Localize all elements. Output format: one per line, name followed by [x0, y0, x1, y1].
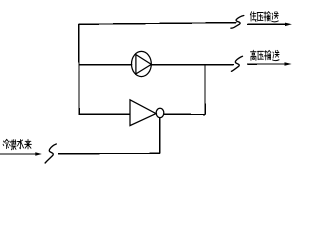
char 高 — [251, 50, 257, 60]
pump P (circle with inscribed triangle) — [132, 51, 152, 76]
wire: middle horizontal from pump to break — [151, 64, 233, 66]
char 水 — [17, 139, 23, 148]
char 输 — [264, 12, 270, 21]
char 低 — [250, 12, 256, 22]
break symbol on condensate line — [45, 144, 56, 163]
break symbol on top line — [231, 16, 244, 29]
char 来 — [25, 139, 32, 149]
char 冷 — [3, 139, 9, 148]
wire: top horizontal (to low-pressure break) — [79, 23, 236, 25]
wire: left vertical riser — [78, 24, 80, 114]
wire: middle horizontal into pump — [79, 64, 132, 66]
char 输 — [264, 50, 270, 59]
ejector U (triangle with bubble) — [130, 100, 164, 126]
label: 低压输送 (low-pressure delivery) — [250, 12, 278, 22]
arrowhead: high-pressure delivery — [285, 62, 292, 66]
label: 高压输送 (high-pressure delivery) — [251, 50, 280, 60]
wire: right vertical (middle line down to ejector outlet) — [204, 64, 206, 114]
char 压 — [258, 51, 264, 59]
char 送 — [272, 12, 279, 22]
wire: top-right arrow line (low-pressure delivery) — [248, 23, 287, 25]
wire: bubble outlet to right vertical — [164, 113, 205, 116]
wire: drop from bubble to condensate line — [159, 118, 161, 154]
wire: bottom loop horizontal into ejector — [79, 113, 130, 115]
wire: middle-right arrow line (high-pressure delivery) — [247, 63, 286, 65]
label: 冷凝水来 (condensate water in) — [3, 139, 31, 149]
wire: condensate inlet line (left of break) — [0, 153, 35, 155]
arrowhead: low-pressure delivery — [285, 23, 292, 27]
arrowhead: condensate inlet — [35, 152, 42, 156]
char 送 — [272, 50, 279, 60]
char 压 — [257, 13, 263, 21]
wire: condensate line from break to drop — [59, 152, 160, 154]
break symbol on middle line — [231, 56, 242, 71]
char 凝 — [9, 140, 16, 150]
